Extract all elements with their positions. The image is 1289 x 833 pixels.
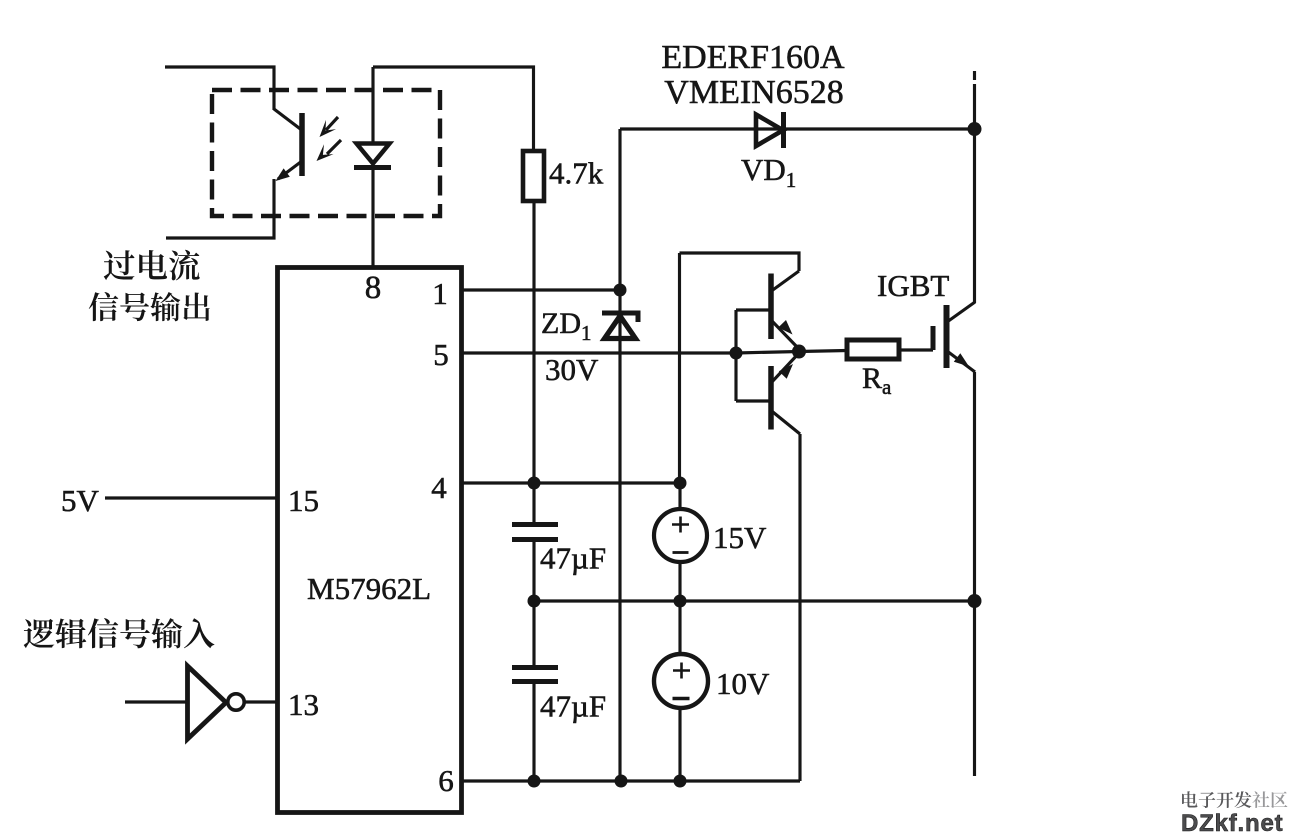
svg-text:4.7k: 4.7k (549, 156, 604, 191)
zener diode ZD1 (602, 313, 638, 339)
wire: top rail from LED to 4.7k resistor (373, 67, 534, 151)
voltage source V2 10V (654, 601, 708, 781)
junction: mid rail / emitter rail (968, 594, 982, 608)
capacitor C1 47uF (512, 483, 558, 601)
wire: node A up to VD1 anode rail (618, 129, 621, 290)
svg-text:M57962L: M57962L (307, 571, 431, 606)
IGBT Q3 (933, 302, 975, 372)
wire: 5V to pin 15 (105, 496, 277, 499)
wire: mid rail (0V between sources) (534, 599, 975, 602)
wire: logic input lead (125, 700, 187, 703)
svg-text:6: 6 (438, 763, 454, 798)
wire: inverter output to pin 13 (245, 700, 278, 703)
svg-text:5: 5 (433, 337, 449, 372)
junction: pin4/cap column (528, 477, 541, 490)
LED of optocoupler (354, 67, 391, 267)
junction: pin4/15V source (674, 477, 687, 490)
svg-text:30V: 30V (545, 352, 599, 387)
wire: driver supply rail (left vertical of driver stage) (678, 253, 681, 483)
wire: collector rail stub above node B (973, 71, 976, 80)
junction: base bus on pin5 wire (730, 347, 743, 360)
wire: resistor bottom down to pin4 rail (532, 201, 535, 483)
junction: emitter node (792, 345, 806, 359)
optocoupler dashed package outline (212, 90, 440, 216)
svg-text:15: 15 (288, 483, 319, 518)
capacitor C2 47uF (512, 601, 558, 781)
wire: Ra to IGBT gate (899, 348, 933, 351)
resistor R 4.7k (523, 151, 544, 201)
label 逻辑信号输入 (logic signal input) (24, 619, 55, 648)
junction node A (pin1 / VD1 / ZD1) (614, 284, 627, 297)
svg-text:DZkf.net: DZkf.net (1181, 810, 1283, 833)
wire: node A rail down to pin 6 rail (618, 290, 621, 781)
junction: pin6 / source column (674, 775, 687, 788)
phototransistor of optocoupler (274, 109, 303, 181)
label 过电流 (overcurrent) (104, 250, 135, 280)
inverter gate (logic input buffer) (188, 666, 245, 739)
svg-text:EDERF160A: EDERF160A (661, 39, 845, 76)
junction node B (VD1 cathode / IGBT collector rail) (968, 122, 982, 136)
resistor Ra (847, 340, 899, 359)
svg-text:VMEIN6528: VMEIN6528 (664, 74, 843, 111)
transistor Q1 (upper NPN driver) (736, 271, 799, 349)
label 信号输出 (signal output) (89, 292, 119, 321)
svg-text:10V: 10V (716, 666, 770, 701)
svg-text:IGBT: IGBT (877, 268, 949, 303)
svg-text:47µF: 47µF (540, 541, 606, 576)
svg-text:1: 1 (432, 276, 448, 311)
junction: mid rail / source column (674, 595, 687, 608)
IC U1 M57962L body (278, 268, 462, 813)
junction: pin6 / node A rail (615, 775, 628, 788)
svg-text:13: 13 (288, 687, 319, 722)
wire: emitter node to Ra (799, 351, 847, 352)
voltage source V1 15V (654, 483, 707, 601)
watermark 电子开发社区 (1182, 791, 1197, 807)
wire: driver stage top rail (680, 253, 800, 271)
junction: mid rail / cap column (528, 595, 541, 608)
diode VD1 (620, 112, 975, 148)
wire: base bus vertical (734, 310, 737, 401)
wire: pin 4 rail (462, 481, 680, 484)
transistor Q2 (lower PNP driver) (736, 353, 800, 434)
wire: phototransistor emitter to lower-left output lead (166, 179, 274, 238)
svg-text:15V: 15V (713, 520, 767, 555)
svg-text:8: 8 (365, 270, 382, 306)
wire: pin 6 rail (462, 779, 800, 782)
wire: pin 5 to driver bases and emitters (462, 352, 799, 354)
wire: IGBT emitter rail down (973, 372, 976, 776)
svg-text:4: 4 (431, 470, 447, 505)
svg-text:47µF: 47µF (540, 689, 606, 724)
wire: pin 1 to node A (462, 288, 620, 291)
wire: Q2 collector down and along to pin 6 rail (798, 434, 801, 781)
junction: pin6 / cap column (528, 775, 541, 788)
svg-text:5V: 5V (61, 483, 100, 518)
wire: collector rail node B down to IGBT collector (973, 84, 976, 303)
light arrows into phototransistor (317, 117, 342, 161)
wire: top-left output lead upper (165, 67, 274, 110)
